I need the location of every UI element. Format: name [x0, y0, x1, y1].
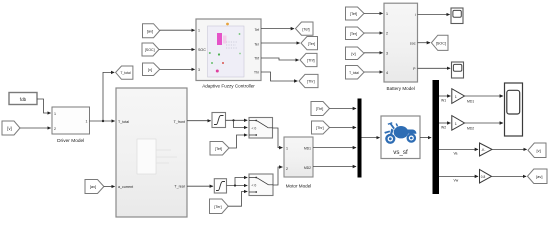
scope Motors — [505, 83, 523, 136]
svg-text:SOC: SOC — [198, 48, 206, 52]
wire junction up to T_total goto — [103, 72, 114, 121]
wire vehicle T_front to sat1 — [187, 120, 211, 122]
wire [SOC] to fuzzy in2 — [159, 49, 195, 51]
goto tag [av] right — [528, 169, 548, 184]
svg-text:MD1: MD1 — [467, 99, 474, 103]
svg-text:[Ter]: [Ter] — [308, 42, 315, 46]
block fdb constant — [9, 93, 37, 105]
wire [Tef] to switch1 in3 — [229, 135, 247, 148]
svg-text:[Ter]: [Ter] — [350, 32, 357, 36]
svg-text:[Ter]: [Ter] — [214, 205, 221, 209]
goto tag [Ter] — [301, 37, 318, 50]
svg-text:[v]: [v] — [536, 148, 540, 153]
wire [Thf] to mux — [330, 108, 357, 110]
wire sat1 to switch1 in1 — [226, 119, 248, 121]
wire fuzzy out1 — [261, 28, 294, 30]
svg-text:W1: W1 — [441, 99, 446, 103]
wire mux to vs_sf — [362, 137, 380, 139]
goto tag T_total — [116, 66, 133, 79]
wire battery soc to goto — [418, 42, 431, 44]
gain MD2 — [452, 116, 465, 131]
wire [av] to vehicle a_current — [104, 186, 115, 188]
from tag [Thf] mux — [311, 102, 330, 116]
fuzzy plot panel — [208, 26, 245, 77]
svg-text:1: 1 — [455, 95, 457, 99]
wire gainK to [v] goto — [492, 148, 527, 150]
wire junction to switch2 in1 — [235, 178, 247, 186]
wire [v] to fuzzy in3 — [160, 68, 195, 70]
svg-text:MD2: MD2 — [304, 166, 311, 170]
goto tag [Tef] — [296, 22, 314, 35]
from tag [Tef] motor — [210, 142, 229, 156]
from tag [v] left — [2, 121, 20, 135]
svg-text:Tef: Tef — [255, 28, 259, 32]
gain -K- — [480, 143, 493, 156]
from tag [SOC] to fuzzy — [142, 43, 159, 56]
svg-text:vs_sf: vs_sf — [393, 149, 408, 156]
svg-text:[Thr]: [Thr] — [307, 80, 315, 84]
goto tag [Thr] — [299, 74, 318, 87]
svg-text:[v]: [v] — [148, 67, 152, 72]
svg-text:< 0: < 0 — [252, 184, 257, 188]
from tag [av] to fuzzy — [143, 24, 160, 38]
svg-text:1: 1 — [198, 29, 200, 33]
wire demux W1 to gain1 — [439, 95, 450, 97]
wire [v] to Driver Model in2 — [20, 127, 51, 129]
wire to battery in1 — [364, 12, 383, 14]
block Battery Model — [384, 3, 418, 91]
from tag [av] lower-left — [85, 180, 104, 194]
svg-text:soc: soc — [410, 41, 416, 45]
svg-text:[Thf]: [Thf] — [316, 107, 324, 111]
switch block 2 — [249, 174, 273, 196]
svg-text:1: 1 — [86, 119, 88, 123]
svg-text:3: 3 — [386, 52, 388, 56]
mux bar — [358, 99, 362, 178]
wire [av] to fuzzy in1 — [160, 29, 195, 31]
wire fuzzy out4 — [261, 72, 297, 81]
svg-text:[v]: [v] — [351, 51, 355, 56]
block vs_sf motorcycle — [381, 116, 420, 159]
svg-text:[Thr]: [Thr] — [316, 126, 324, 130]
svg-text:Battery Model: Battery Model — [387, 86, 415, 91]
from tag T_total battery — [346, 66, 365, 80]
wire motor MD1 to mux — [313, 147, 356, 149]
wire fuzzy out3 — [261, 58, 299, 60]
from tag [v] to fuzzy — [143, 63, 160, 76]
wire demux Vw to gain0.8 — [439, 175, 478, 177]
wire sat2 to switch2 in2 — [227, 185, 248, 187]
wire gain0.8 to [av] goto — [492, 175, 527, 177]
svg-text:3: 3 — [198, 68, 200, 72]
svg-text:[Thf]: [Thf] — [307, 59, 315, 63]
block Motor Model — [284, 137, 313, 189]
scope Current — [451, 8, 463, 24]
svg-text:[SOC]: [SOC] — [436, 41, 446, 45]
wire battery P to scope2 — [418, 67, 451, 69]
svg-text:2: 2 — [54, 127, 56, 131]
svg-text:T_total: T_total — [349, 71, 359, 75]
svg-text:MD2: MD2 — [467, 126, 474, 130]
svg-text:a_current: a_current — [118, 185, 133, 189]
svg-text:Thf: Thf — [254, 56, 259, 60]
wire junction to switch1 in2 — [234, 120, 248, 127]
svg-text:[Tef]: [Tef] — [302, 27, 309, 31]
from tag [Tef] battery — [346, 7, 365, 20]
goto tag [Thf] — [300, 53, 317, 66]
svg-text:T_rear: T_rear — [174, 185, 185, 189]
svg-text:Driver Model: Driver Model — [57, 138, 84, 144]
wire switch1 to motor in1 — [273, 128, 283, 148]
demux bar — [433, 80, 440, 194]
wire vehicle T_rear to sat2 — [187, 185, 213, 187]
svg-text:2: 2 — [386, 32, 388, 36]
goto tag [v] right — [528, 143, 546, 158]
gain 0.8 — [480, 170, 492, 184]
svg-text:1: 1 — [386, 12, 388, 16]
svg-text:[v]: [v] — [7, 126, 11, 131]
svg-text:Adaptive Fuzzy Controller: Adaptive Fuzzy Controller — [202, 84, 255, 89]
wire [Thr] to mux — [330, 127, 357, 129]
wire demux Va to gainK — [439, 148, 478, 150]
block Adaptive Fuzzy Controller — [196, 19, 261, 89]
svg-text:[Tef]: [Tef] — [350, 12, 357, 16]
wire fuzzy out2 — [261, 42, 300, 44]
scope Power — [452, 62, 464, 78]
wire gain1 to scope — [465, 95, 503, 97]
svg-text:Va: Va — [454, 152, 458, 156]
svg-text:[Tef]: [Tef] — [215, 147, 222, 151]
wire to battery in2 — [364, 32, 383, 34]
block Driver Model — [52, 107, 90, 144]
wire gain2 to scope — [465, 122, 503, 124]
svg-text:Vw: Vw — [454, 179, 459, 183]
wire fdb to Driver Model in1 — [37, 99, 51, 113]
svg-text:-K-: -K- — [481, 148, 485, 152]
wire battery i to scope1 — [418, 14, 450, 16]
svg-text:1: 1 — [286, 146, 288, 150]
wire vs_sf to demux — [420, 137, 431, 139]
saturation block 1 — [212, 113, 226, 128]
wire [Ter] to switch2 in3 — [228, 192, 247, 207]
from tag [v] battery — [346, 47, 365, 60]
svg-text:4: 4 — [386, 71, 388, 75]
svg-text:< 0: < 0 — [252, 127, 257, 131]
block Vehicle subsystem — [116, 88, 187, 217]
gain MD1 — [452, 89, 465, 104]
wire Driver Model out to junction and vehicle — [90, 120, 115, 122]
svg-text:W2: W2 — [441, 126, 446, 130]
svg-text:Motor Model: Motor Model — [286, 184, 312, 189]
svg-text:[av]: [av] — [536, 174, 542, 179]
svg-text:T_total: T_total — [120, 71, 131, 75]
saturation block 2 — [214, 179, 226, 193]
svg-text:MD1: MD1 — [304, 146, 311, 150]
svg-text:T_front: T_front — [174, 120, 185, 124]
svg-text:fdb: fdb — [20, 97, 27, 102]
switch block 1 — [249, 118, 273, 139]
wire switch2 to motor in2 — [273, 167, 282, 185]
svg-text:T_total: T_total — [118, 120, 129, 124]
svg-text:2: 2 — [286, 167, 288, 171]
from tag [Ter] motor — [210, 199, 229, 214]
svg-text:[av]: [av] — [90, 184, 96, 189]
svg-text:[av]: [av] — [147, 28, 153, 33]
svg-text:[SOC]: [SOC] — [145, 48, 155, 52]
wire demux W2 to gain2 — [439, 122, 450, 124]
from tag [Ter] battery — [346, 27, 365, 40]
goto tag [SOC] — [431, 35, 448, 50]
wire motor MD2 to mux — [313, 166, 356, 168]
svg-text:0.8: 0.8 — [481, 175, 486, 179]
wire to battery in4 — [364, 71, 383, 73]
wire to battery in3 — [364, 52, 383, 54]
svg-text:1: 1 — [54, 112, 56, 116]
svg-text:1: 1 — [455, 122, 457, 126]
from tag [Thr] mux — [312, 121, 330, 134]
